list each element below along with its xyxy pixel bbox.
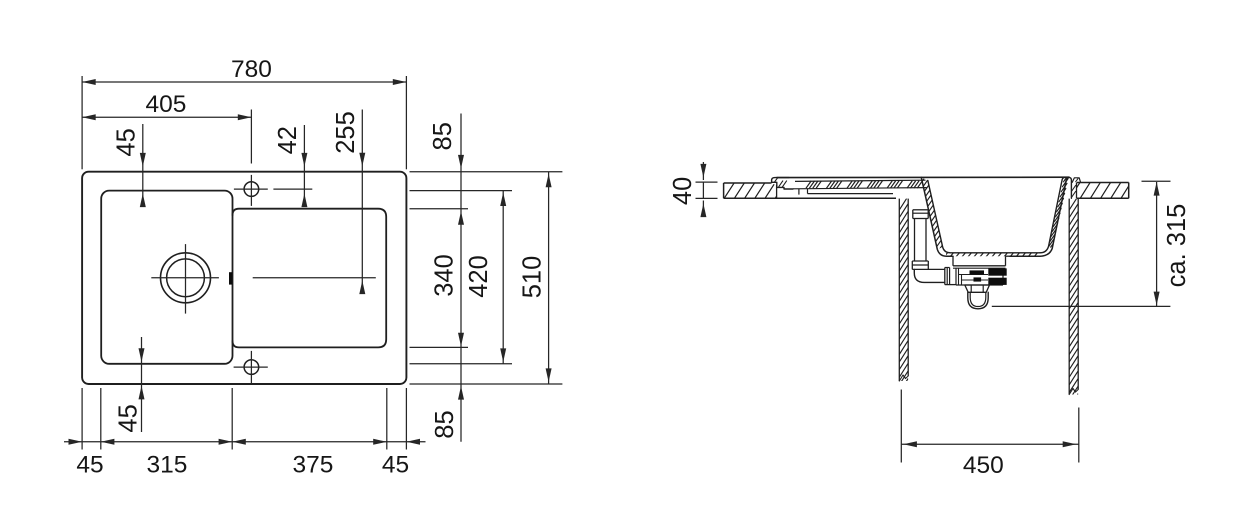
svg-text:45: 45 (76, 452, 103, 479)
sink left lip hatch (775, 178, 787, 187)
siphon leader line (992, 305, 1171, 307)
dimension 450 (901, 390, 1079, 463)
faucet hole top crosshair / 42 reference line (234, 175, 312, 206)
svg-text:340: 340 (431, 254, 459, 297)
drain flange (953, 266, 1006, 268)
svg-text:85: 85 (431, 410, 459, 438)
faucet hole bottom crosshair (234, 351, 268, 384)
countertop right block (1070, 183, 1141, 199)
svg-text:255: 255 (332, 111, 360, 154)
drain inner circle (167, 259, 205, 297)
drain crosshair (151, 244, 219, 314)
dimension 255 (359, 110, 365, 295)
svg-text:450: 450 (963, 452, 1004, 479)
faucet hole top (244, 182, 259, 197)
svg-text:510: 510 (519, 256, 547, 299)
overflow slot mark (229, 272, 232, 284)
drain outlet black mass lower (988, 278, 1006, 285)
dimension 45 vertical bottom-left (139, 337, 145, 432)
overflow pipe vertical (915, 219, 927, 262)
svg-text:405: 405 (146, 91, 187, 118)
dimension 85-340-85 line (458, 114, 464, 442)
drain outer circle (161, 253, 211, 303)
svg-text:ca. 315: ca. 315 (1163, 204, 1191, 288)
dimension 420 (500, 191, 506, 364)
dimension 45 top-left (140, 124, 146, 207)
bowl right wall inner (1040, 178, 1064, 253)
svg-text:375: 375 (293, 452, 334, 479)
svg-text:780: 780 (231, 56, 272, 83)
overflow pipe union nut (912, 261, 928, 269)
svg-text:85: 85 (429, 122, 457, 150)
svg-text:420: 420 (465, 255, 493, 298)
dimension 405 (82, 110, 251, 164)
svg-text:315: 315 (147, 452, 188, 479)
bowl wall hatch (921, 173, 943, 253)
svg-text:42: 42 (274, 126, 302, 154)
bottom extension lines (82, 388, 406, 450)
drain lock nut (965, 285, 990, 292)
faucet hole bottom (244, 360, 259, 375)
bowl left wall (921, 177, 1040, 256)
sink rim hatch (806, 181, 922, 188)
countertop left block (714, 183, 785, 198)
bottom dimension line 45-315-375-45 (64, 439, 426, 445)
dimension 40 (696, 162, 718, 217)
siphon cup (968, 292, 988, 309)
drainboard (233, 209, 387, 348)
cabinet wall right (1069, 196, 1078, 408)
dimension 42 (301, 125, 307, 207)
svg-text:45: 45 (382, 452, 409, 479)
sink rim material band (793, 180, 927, 189)
sink left lip profile (772, 178, 793, 189)
sink rim underside lines (799, 189, 893, 195)
sink right lip (1069, 177, 1080, 198)
sink rim top surface line (777, 176, 1070, 178)
sink outer outline (82, 172, 406, 384)
dimension 510 (546, 172, 552, 384)
bowl bottom outer right part (1010, 177, 1069, 256)
drain recess in bowl bottom (953, 256, 1010, 266)
dimension ca. 315 (1142, 181, 1171, 306)
overflow pipe connector (913, 210, 928, 219)
overflow pipe elbow (914, 269, 945, 282)
dimension 780 (82, 76, 406, 169)
svg-text:45: 45 (112, 128, 140, 156)
drain body black square (974, 277, 982, 281)
cabinet wall left (899, 196, 908, 392)
drainboard centre line (253, 277, 376, 279)
svg-text:45: 45 (115, 404, 143, 432)
drain body black bar (970, 270, 985, 274)
drain body (945, 268, 1003, 286)
sink bowl (101, 191, 232, 364)
svg-text:40: 40 (669, 177, 697, 205)
right side extension lines (410, 172, 563, 384)
drain outlet black mass upper (988, 268, 1006, 275)
